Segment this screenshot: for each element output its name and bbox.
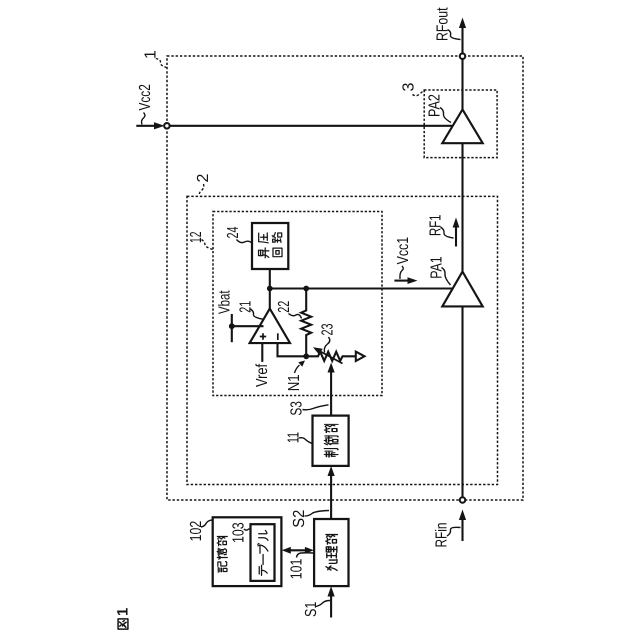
leader N1 arrow — [295, 365, 300, 373]
junction node above resistor 22 — [303, 286, 309, 292]
wire op-amp minus input feedback — [278, 343, 307, 356]
leader 24 — [237, 240, 253, 244]
leader PA2 — [440, 108, 451, 123]
leader 11 — [299, 438, 313, 444]
resistor 22 — [301, 289, 311, 357]
junction node on Vbat bar — [229, 323, 235, 329]
wire RF1 annotation arrow — [453, 218, 460, 228]
leader S3 — [303, 405, 329, 410]
wire RFin input arrow — [459, 510, 466, 521]
op-amp minus input mark — [277, 333, 279, 340]
wire circle to PA2 apex — [461, 59, 463, 109]
leader 3 — [413, 91, 425, 96]
dashed box 3 (PA2 block) — [424, 90, 497, 158]
wire PA2 to PA1 — [461, 143, 463, 271]
svg-text:Vcc1: Vcc1 — [395, 237, 412, 265]
leader S1 — [316, 601, 330, 607]
resistor 23 variable — [306, 352, 356, 361]
svg-text:Vcc2: Vcc2 — [137, 84, 154, 110]
figure label 図1 — [118, 619, 128, 629]
node Vcc2 terminal circle — [164, 123, 170, 129]
wire Vcc2 to PA2 — [170, 125, 452, 127]
node RFin terminal circle — [460, 497, 466, 503]
leader 1 — [156, 59, 167, 68]
leader 12 — [202, 240, 214, 250]
table katakana テーブル — [259, 531, 268, 541]
svg-text:PA1: PA1 — [429, 256, 446, 279]
wire Vbat to op-amp — [232, 325, 264, 327]
processing unit box 101 — [314, 519, 348, 586]
amplifier PA1 — [442, 272, 482, 307]
svg-text:PA2: PA2 — [427, 94, 444, 117]
svg-text:23: 23 — [320, 323, 337, 335]
leader 103 — [244, 529, 251, 531]
leader RFin — [447, 527, 461, 536]
dashed box 12 (supply circuit) — [213, 212, 382, 396]
boost circuit box 24 — [252, 223, 288, 269]
svg-text:3: 3 — [401, 83, 418, 92]
wire S1 input arrow — [328, 586, 335, 596]
leader 101 — [297, 553, 315, 558]
wire RFout arrow — [459, 18, 466, 29]
wire Vcc1 annotation arrow — [408, 277, 418, 284]
svg-text:103: 103 — [231, 522, 248, 543]
wire Vcc1 rail to PA1 — [270, 287, 452, 289]
leader RFout — [448, 30, 461, 40]
leader 21 — [251, 309, 264, 319]
leader 23 — [324, 337, 329, 353]
dashed module box 1 — [167, 56, 523, 500]
svg-text:N1: N1 — [286, 374, 303, 391]
svg-text:S2: S2 — [291, 510, 308, 528]
boost circuit kanji 昇圧回路 — [259, 233, 268, 243]
svg-text:1: 1 — [115, 608, 132, 616]
op-amp plus input mark — [260, 333, 266, 339]
leader RF1 — [441, 227, 454, 238]
resistor 23 wiper arrow — [320, 351, 343, 363]
wire S3 control arrow — [328, 363, 335, 373]
storage unit box 102 — [213, 517, 282, 586]
node RFout terminal circle — [460, 53, 466, 59]
wire op-amp plus input to Vref — [261, 343, 263, 362]
storage unit kanji 記憶部 — [217, 536, 227, 545]
junction node above op-amp — [267, 286, 273, 292]
leader Vcc2 squiggle — [142, 113, 146, 125]
svg-text:102: 102 — [188, 521, 205, 542]
svg-text:1: 1 — [142, 50, 159, 59]
amplifier PA2 — [442, 110, 482, 144]
leader 102 — [201, 520, 213, 527]
table box 103 — [251, 524, 275, 581]
processing unit kanji 処理部 — [326, 535, 338, 545]
svg-text:Vbat: Vbat — [217, 290, 234, 314]
wire double arrow between storage and processor — [288, 549, 308, 551]
svg-text:2: 2 — [195, 174, 212, 183]
svg-text:22: 22 — [276, 301, 293, 313]
wire boost box to node — [269, 269, 271, 289]
dashed block box 2 — [187, 196, 498, 484]
wire Vcc2 input arrow — [136, 125, 155, 127]
leader 22 — [289, 314, 302, 319]
svg-text:RFout: RFout — [435, 7, 452, 41]
leader Vcc1 squiggle — [400, 266, 403, 279]
node N1 junction — [303, 353, 309, 359]
wire S2 arrow — [328, 466, 335, 476]
leader 2 — [199, 184, 204, 196]
svg-text:S1: S1 — [303, 602, 320, 617]
Vbat supply bar — [231, 314, 233, 342]
control unit box 11 — [313, 416, 349, 466]
open triangle output terminal — [356, 352, 365, 361]
svg-text:24: 24 — [225, 226, 242, 238]
leader PA1 — [442, 268, 451, 286]
svg-text:101: 101 — [289, 559, 306, 580]
op-amp 21 — [250, 309, 290, 344]
svg-text:Vref: Vref — [254, 363, 271, 387]
wire PA1 to RFin — [461, 306, 463, 497]
control unit kanji 制御部 — [324, 424, 337, 432]
svg-text:RF1: RF1 — [428, 214, 445, 236]
svg-text:S3: S3 — [289, 401, 306, 416]
wire node to op-amp apex — [269, 289, 271, 309]
leader S2 — [305, 511, 330, 517]
svg-text:12: 12 — [188, 231, 205, 243]
